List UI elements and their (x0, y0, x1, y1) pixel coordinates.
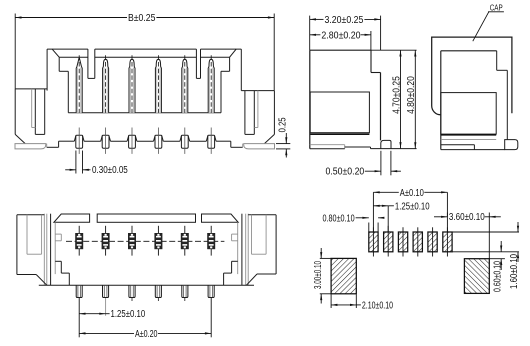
right wing (plan view) (246, 215, 276, 285)
right pad right-edge extension (488, 213, 490, 259)
bottom edge segment before leg 6 (190, 140, 207, 142)
CAP label with leader (473, 3, 504, 41)
pad2 centerline extension (387, 206, 389, 232)
dimension 4.70±0.25 (vertical) (391, 50, 402, 148)
front view cavity floor (68, 112, 221, 114)
svg-text:B±0.25: B±0.25 (128, 13, 156, 24)
plan view rear edge (39, 284, 254, 286)
SMT leg 6 (front view) (206, 128, 216, 154)
dimension 0.30±0.05 (leg width) (65, 151, 128, 177)
side view bottom profile (310, 145, 417, 149)
dimension B±0.25 (overall width, front view) (15, 13, 274, 91)
plan view body side edges (44, 214, 248, 286)
right mounting wing (front view) (241, 91, 274, 144)
svg-text:2.80±0.20: 2.80±0.20 (321, 30, 361, 41)
svg-text:1.25±0.10: 1.25±0.10 (395, 201, 430, 212)
svg-text:A±0.20: A±0.20 (135, 329, 158, 340)
PCB pad 1 (369, 227, 378, 256)
dimension 0.25 (standoff, right of front view) (276, 117, 290, 157)
svg-text:3.60±0.10: 3.60±0.10 (449, 212, 485, 223)
svg-text:1.25±0.10: 1.25±0.10 (111, 309, 146, 320)
svg-text:0.60±0.10: 0.60±0.10 (492, 261, 503, 292)
dimension 0.80±0.10 (pad width) (323, 213, 385, 231)
dimension 3.00±0.10 (vertical) (313, 248, 331, 304)
svg-text:2.10±0.10: 2.10±0.10 (362, 300, 393, 311)
front view bottom profile (47, 141, 243, 147)
capped side view body (441, 51, 508, 150)
svg-text:A±0.10: A±0.10 (400, 188, 424, 199)
PCB pad 2 (384, 226, 393, 257)
capped side view recess (441, 93, 496, 135)
right pad top extension (489, 258, 505, 260)
bottom edge segment before leg 5 (163, 140, 180, 142)
svg-text:0.80±0.10: 0.80±0.10 (323, 213, 355, 224)
contact 4 (plan view) (154, 226, 162, 256)
contact 6 (plan view) (207, 226, 215, 256)
PCB pad 4 (413, 227, 422, 256)
SMT leg 1 (front view) (74, 128, 84, 154)
svg-text:0.50±0.20: 0.50±0.20 (326, 167, 365, 178)
contact 3 (plan view) (128, 226, 136, 256)
dimension 1.60±0.10 (vertical) (509, 222, 520, 289)
pin 5 (front view) (182, 55, 188, 112)
pin 6 (front view) (208, 55, 214, 112)
bottom edge segment before leg 3 (111, 140, 128, 142)
dimension 4.80±0.20 (vertical) (406, 50, 417, 148)
dimension 0.50±0.20 (tab width) (326, 151, 401, 178)
dimension 3.20±0.25 (side view width) (310, 15, 381, 50)
SMT leg 4 (plan view) (155, 285, 161, 301)
PCB pad 3 (398, 227, 407, 256)
PCB pad 6 (443, 227, 452, 256)
dimension A±0.10 (PCB) (373, 188, 447, 199)
contact row dashed centerline (plan view) (66, 240, 224, 242)
pad1 centerline extension up to dims (372, 192, 374, 232)
svg-text:CAP: CAP (490, 3, 503, 12)
SMT leg 2 (plan view) (103, 285, 109, 297)
capped side view solder tab (505, 140, 518, 150)
left wing (plan view) (17, 215, 47, 285)
SMT leg 5 (front view) (180, 128, 190, 154)
plan view front wall bar center (97, 214, 195, 222)
svg-text:0.30±0.05: 0.30±0.05 (92, 165, 128, 176)
svg-text:1.60±0.10: 1.60±0.10 (509, 254, 520, 289)
left solder tab (front view) (15, 144, 46, 149)
contact 5 (plan view) (181, 226, 189, 256)
SMT leg 5 (plan view) (182, 285, 188, 301)
right solder tab (front view) (244, 144, 275, 149)
svg-text:3.00±0.10: 3.00±0.10 (313, 261, 324, 289)
front view housing outline (47, 49, 241, 113)
svg-text:3.20±0.25: 3.20±0.25 (325, 15, 364, 26)
SMT leg 4 (front view) (154, 128, 164, 154)
side view recess (310, 92, 369, 134)
pin 4 (front view) (155, 55, 161, 112)
PCB pad 5 (428, 227, 437, 256)
SMT leg 3 (plan view) (129, 285, 135, 301)
pin 3 (front view) (129, 55, 135, 112)
left mounting wing (front view) (15, 89, 47, 144)
SMT leg 1 (plan view) (76, 285, 82, 297)
svg-text:4.80±0.20: 4.80±0.20 (406, 76, 417, 114)
SMT leg 2 (front view) (101, 128, 111, 154)
cap outline (432, 37, 512, 115)
plan view front wall bar right (202, 214, 239, 222)
dimension 1.25±0.10 (PCB pitch) (373, 201, 430, 212)
PCB right anchor pad (hatched) (464, 259, 489, 294)
pad row top extension line (452, 231, 519, 233)
dimension 2.80±0.20 (310, 30, 371, 50)
plan view interior wall left (55, 222, 69, 285)
PCB left anchor pad (hatched) (331, 258, 356, 293)
pin 1 (front view) (76, 55, 82, 112)
contact 1 (plan view) (75, 226, 83, 256)
pad6 centerline extension (446, 192, 448, 232)
SMT leg 3 (front view) (127, 128, 137, 154)
capped side view bottom profile (441, 140, 505, 150)
side view solder tab (381, 140, 391, 148)
bottom edge segment before leg 2 (84, 140, 101, 142)
dimension 2.10±0.10 (331, 295, 393, 312)
dimension 3.60±0.10 (434, 212, 501, 223)
dimension 0.60±0.10 (vertical) (492, 241, 503, 292)
plan view front wall bar left (54, 214, 90, 222)
pin 2 (front view) (103, 55, 109, 112)
dimension 1.25±0.10 (pitch, plan view) (79, 298, 145, 337)
contact 2 (plan view) (102, 226, 110, 256)
plan view interior wall right (224, 222, 238, 285)
side view body outline (310, 50, 417, 149)
svg-text:4.70±0.25: 4.70±0.25 (391, 76, 402, 114)
bottom edge segment before leg 4 (137, 140, 154, 142)
bottom edge segment before leg 1 (59, 140, 75, 142)
svg-text:0.25: 0.25 (278, 117, 289, 132)
dimension A±0.20 (overall pin span) (79, 298, 211, 340)
pad row bottom extension line (452, 251, 519, 253)
SMT leg 6 (plan view) (208, 285, 214, 297)
bottom edge segment after leg 6 (216, 140, 231, 142)
